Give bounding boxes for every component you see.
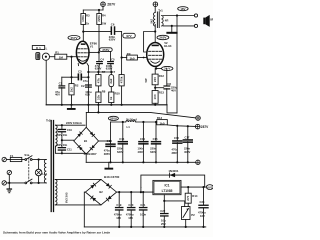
svg-text:16V: 16V	[116, 216, 121, 220]
resistor R3	[81, 13, 90, 25]
resistor R13k	[152, 90, 164, 103]
node R2 top	[70, 76, 72, 78]
resistor R1	[55, 51, 67, 60]
wire top rail y10	[83, 9, 103, 11]
capacitor C11	[56, 143, 72, 151]
EF86 bottom pin ticks	[78, 63, 88, 65]
EL34 grid dashes	[149, 51, 162, 59]
switch S1a	[24, 153, 32, 160]
Tr2 heater winding	[55, 179, 57, 204]
svg-text:10u: 10u	[161, 219, 166, 223]
EF86 labels	[90, 42, 98, 49]
svg-text:1k0: 1k0	[129, 57, 134, 61]
jack ground drop	[45, 60, 47, 105]
svg-text:630V: 630V	[117, 150, 123, 154]
svg-text:Tr2: Tr2	[46, 118, 51, 122]
heater bottom tap	[55, 204, 101, 206]
node C13	[122, 121, 124, 123]
EF86 anode plate	[81, 43, 86, 45]
wire anode to tube	[82, 32, 84, 42]
resistor R7	[96, 70, 106, 86]
Tr2 primary winding	[44, 160, 46, 183]
EF86 cathode	[79, 59, 87, 61]
bridge rectifier B1	[74, 127, 99, 154]
svg-text:LT1085: LT1085	[162, 189, 173, 193]
IC input jog	[152, 191, 154, 193]
svg-text:V1: V1	[90, 45, 94, 49]
capacitor C20	[126, 192, 136, 227]
rail dots	[109, 161, 188, 163]
node C14	[142, 121, 144, 123]
B+ rail	[111, 122, 196, 126]
EF86 cathode run y77.2	[62, 76, 78, 78]
svg-text:47k: 47k	[96, 78, 100, 83]
wire R11 col	[121, 58, 123, 105]
svg-text:C22: C22	[160, 209, 165, 213]
resistor R5 capsule	[100, 48, 113, 52]
svg-text:630V: 630V	[95, 67, 102, 71]
mains terminal L	[2, 157, 6, 161]
capacitor C17	[183, 126, 193, 162]
capacitor C5	[106, 58, 115, 71]
coupling wire y31.6	[83, 31, 111, 33]
wire jack to R1	[50, 56, 55, 58]
svg-text:1M: 1M	[59, 56, 64, 60]
protection diode 1N4001	[141, 169, 205, 187]
node grid EF86	[70, 56, 72, 58]
svg-text:257V: 257V	[70, 36, 77, 40]
switch S1b	[25, 179, 32, 184]
svg-text:220n: 220n	[184, 147, 190, 151]
svg-text:240: 240	[153, 77, 157, 82]
svg-text:1k: 1k	[109, 96, 113, 100]
svg-text:1W: 1W	[102, 21, 107, 25]
Tr2 HV secondary	[55, 125, 57, 146]
B2 diode TR	[106, 183, 111, 188]
input jack socket K1	[42, 53, 49, 60]
capacitor C19	[114, 192, 124, 227]
capacitor C3	[78, 70, 88, 83]
svg-text:287V: 287V	[201, 125, 209, 129]
resistor R9 grid stopper	[127, 52, 138, 61]
svg-text:100n: 100n	[138, 146, 144, 150]
node PE junction	[8, 182, 10, 184]
capacitor C7 capsule	[109, 70, 116, 87]
node cathode	[155, 67, 157, 69]
ganged switch link	[28, 158, 30, 181]
svg-text:2u2: 2u2	[109, 78, 113, 83]
svg-text:47n: 47n	[83, 79, 88, 83]
svg-text:1N4001: 1N4001	[168, 169, 179, 173]
input connector K1 label box	[32, 46, 47, 51]
svg-text:270: 270	[186, 195, 190, 200]
wire R9 to EL34 g1	[137, 57, 146, 59]
svg-text:R13: R13	[157, 116, 163, 120]
svg-text:6V3: 6V3	[207, 185, 213, 189]
node B1 plus	[109, 140, 111, 142]
svg-text:470u: 470u	[104, 149, 110, 153]
capacitor C12	[104, 139, 116, 163]
svg-text:C2: C2	[81, 84, 85, 88]
terminal 0V PSU	[196, 160, 200, 164]
svg-text:C1: C1	[59, 81, 63, 85]
svg-text:L1: L1	[127, 125, 131, 129]
cathode column x88.4	[87, 66, 89, 105]
Tr2 core	[51, 121, 53, 212]
terminal +287V (Tr1)	[153, 2, 158, 7]
node C11 bottom	[61, 152, 63, 154]
node feedback	[176, 14, 178, 16]
node C10 C11 mid	[61, 139, 63, 141]
svg-text:40V: 40V	[55, 93, 60, 97]
svg-text:18V: 18V	[180, 7, 185, 11]
terminal +287V (top)	[101, 2, 106, 7]
mains terminal N	[2, 181, 6, 185]
node anode	[82, 31, 84, 33]
svg-text:5H 50mA: 5H 50mA	[126, 118, 137, 122]
svg-text:97V: 97V	[126, 34, 131, 38]
C11 bottom	[61, 151, 63, 154]
svg-text:25V: 25V	[161, 222, 166, 226]
adj wire to P2	[164, 201, 184, 207]
wire grid node down	[71, 57, 73, 77]
B2 diode BR	[106, 196, 111, 201]
loudspeaker LS1	[203, 15, 213, 27]
node adj	[163, 200, 165, 202]
svg-text:B1: B1	[84, 139, 88, 143]
0V leg to bridge	[85, 112, 87, 127]
svg-text:C3: C3	[78, 70, 82, 74]
svg-text:C19: C19	[116, 203, 121, 207]
oval label 0V (EL34 grid)	[123, 33, 135, 38]
svg-text:385V: 385V	[104, 152, 110, 156]
svg-text:4700u: 4700u	[114, 213, 122, 217]
ground bus	[46, 104, 167, 106]
input plug symbol	[36, 53, 40, 60]
capacitor C22	[160, 201, 169, 227]
riser C2 col	[87, 105, 89, 113]
HV top wire	[55, 124, 85, 126]
Tr1 primary winding	[154, 13, 156, 27]
IC1 LT1085	[153, 180, 181, 194]
speaker terminal bottom	[194, 24, 197, 27]
EL34 labels	[164, 41, 172, 48]
heater ground rail	[84, 226, 206, 228]
Tr1 secondary winding	[161, 16, 163, 27]
svg-text:C16: C16	[174, 136, 179, 140]
wire R4 bottom to screen node	[98, 25, 100, 62]
svg-text:B2: B2	[99, 190, 103, 194]
PSU 0V rail	[86, 112, 195, 118]
svg-text:630V: 630V	[150, 150, 156, 154]
wire col1 mid	[97, 72, 99, 92]
IC in left wire	[140, 187, 142, 192]
svg-text:S1a: S1a	[24, 153, 29, 157]
svg-text:F1: F1	[10, 154, 14, 158]
fuse F1	[10, 154, 22, 162]
chassis ground secondary	[166, 26, 177, 34]
wire R3 top	[82, 10, 84, 14]
wire L to fuse	[6, 159, 10, 161]
svg-text:220n: 220n	[150, 146, 156, 150]
svg-text:16V: 16V	[128, 216, 133, 220]
svg-text:400V: 400V	[138, 150, 144, 154]
EL34 g1 pin dot	[143, 57, 145, 59]
svg-text:C5: C5	[111, 58, 115, 62]
capacitor C1	[55, 77, 65, 105]
B2 minus leg	[84, 192, 85, 227]
wire S1b to Tr2	[32, 182, 46, 184]
svg-text:1k: 1k	[86, 21, 90, 25]
EL34 tube V2	[147, 43, 164, 67]
svg-text:100n: 100n	[140, 213, 146, 217]
node screen	[98, 51, 100, 53]
resistor R16	[157, 116, 168, 125]
preset P2	[182, 207, 196, 220]
B1 minus leg	[85, 154, 87, 162]
svg-text:100: 100	[153, 94, 157, 99]
wire N to S1b	[6, 182, 25, 184]
svg-text:5k2: 5k2	[150, 19, 154, 24]
bus junction dots	[61, 104, 157, 106]
svg-text:63V: 63V	[85, 93, 90, 97]
resistor R14	[185, 193, 198, 203]
svg-text:8R: 8R	[210, 18, 213, 22]
node C17 top	[187, 125, 189, 127]
node secondary gnd	[171, 25, 173, 27]
IC output wire	[181, 186, 206, 188]
mains terminal PE	[7, 170, 11, 183]
earth symbol	[7, 183, 13, 193]
svg-text:10k: 10k	[96, 95, 100, 100]
IC adj pin	[163, 195, 165, 201]
svg-text:C6: C6	[111, 23, 115, 27]
svg-text:C14: C14	[140, 137, 145, 141]
svg-text:IC1: IC1	[165, 183, 170, 187]
wire fuse to S1a	[22, 159, 25, 161]
svg-text:R12: R12	[159, 74, 165, 78]
node anode EL34	[154, 30, 156, 32]
oval label 265V	[157, 35, 169, 39]
resistor R10	[109, 91, 120, 102]
wire node to R9	[122, 57, 127, 59]
svg-text:4700u: 4700u	[198, 211, 206, 215]
B2 plus rail	[117, 191, 153, 193]
svg-text:255V: 255V	[102, 48, 109, 52]
terminal +287V PSU	[195, 124, 209, 129]
svg-text:330V: 330V	[110, 117, 117, 121]
EL34 cathode pin	[155, 66, 157, 68]
svg-text:265V: 265V	[159, 36, 166, 40]
svg-text:470k: 470k	[120, 76, 124, 83]
wire R3 bottom to anode node	[82, 25, 84, 32]
resistor R4	[97, 13, 107, 25]
svg-text:R1: R1	[55, 51, 59, 55]
capacitor C14	[138, 122, 149, 162]
svg-text:C15: C15	[153, 137, 158, 141]
HV bottom wire	[55, 146, 86, 153]
svg-text:385V: 385V	[172, 151, 178, 155]
B1 diode BR	[90, 145, 95, 150]
choke L1	[126, 118, 137, 129]
heater rail dots	[118, 226, 204, 228]
wire C5 top	[110, 52, 112, 61]
EL34 anode plate	[152, 45, 159, 47]
capacitor C21	[139, 192, 148, 227]
node C24 top	[202, 186, 204, 188]
oval label 24V	[162, 66, 173, 70]
node C16 top	[176, 125, 178, 127]
svg-text:R7: R7	[102, 70, 106, 74]
svg-text:C21: C21	[140, 203, 145, 207]
svg-text:4700u: 4700u	[126, 213, 134, 217]
EL34 cathode	[151, 61, 160, 63]
svg-text:4R: 4R	[165, 18, 169, 22]
svg-text:R10: R10	[115, 91, 121, 95]
Tr1 core	[157, 12, 159, 28]
node C10 top	[61, 124, 63, 126]
bus end jog	[167, 105, 177, 113]
wire R4 top	[98, 10, 100, 14]
capacitor C16	[172, 126, 183, 163]
svg-text:R14: R14	[192, 194, 198, 198]
secondary bottom wire	[163, 25, 194, 27]
nodes heater caps	[118, 191, 144, 193]
riser col1	[97, 105, 99, 113]
capacitor C6	[109, 23, 116, 42]
g2 tap wire	[144, 32, 156, 53]
node lamp bottom	[38, 182, 40, 184]
oval label 257V	[68, 36, 80, 40]
resistor R11 grid leak	[119, 75, 124, 86]
svg-text:C4: C4	[100, 58, 104, 62]
ground symbol PSU	[105, 162, 114, 169]
svg-text:R3: R3	[86, 13, 90, 17]
capacitor C2	[81, 84, 92, 97]
capacitor C8	[163, 69, 177, 105]
lamp La1	[35, 160, 47, 183]
svg-text:4x1N4007: 4x1N4007	[84, 152, 97, 156]
node C15	[155, 121, 157, 123]
svg-text:2k2: 2k2	[69, 87, 73, 92]
terminal 0V upper	[196, 116, 201, 121]
wire terminal down	[102, 7, 104, 11]
node R4 top	[98, 9, 100, 11]
speaker terminal top	[194, 14, 197, 17]
svg-text:B40-C3700: B40-C3700	[104, 175, 120, 179]
B1 diode BL	[78, 145, 83, 150]
EF86 grid dashes	[78, 49, 88, 57]
oval label 6V3	[206, 185, 213, 190]
screen wire y52.4	[89, 51, 99, 53]
svg-text:1k0: 1k0	[159, 121, 164, 125]
svg-text:16V: 16V	[200, 214, 205, 218]
wire col2	[110, 72, 112, 92]
feedback line down	[176, 16, 178, 113]
svg-text:K 1: K 1	[36, 46, 41, 50]
svg-text:C20: C20	[128, 203, 133, 207]
wire R1 to grid	[67, 56, 77, 58]
node k column	[87, 76, 89, 78]
node R14 top	[187, 186, 189, 188]
svg-text:P2: P2	[191, 213, 195, 217]
node x88.4 y72	[87, 71, 89, 73]
svg-text:630V: 630V	[109, 38, 116, 42]
svg-text:EL34: EL34	[164, 44, 172, 48]
resistor R12	[144, 74, 164, 85]
svg-text:R13: R13	[159, 90, 165, 94]
svg-text:C13: C13	[119, 137, 124, 141]
svg-text:R2: R2	[75, 84, 79, 88]
B1 diode TR	[90, 132, 95, 137]
B+ riser	[110, 122, 112, 144]
svg-text:C17: C17	[185, 135, 190, 139]
capacitor C24	[198, 187, 209, 227]
Tr1 primary bottom to anode	[154, 24, 156, 42]
wire mid to bridge left	[62, 139, 74, 141]
capacitor C13	[117, 122, 128, 162]
heater top tap	[55, 178, 101, 180]
wire cathode down	[154, 69, 156, 75]
svg-text:40V: 40V	[171, 88, 176, 92]
wire C5 down	[110, 64, 112, 72]
resistor R8	[96, 90, 106, 103]
svg-text:R8: R8	[102, 90, 106, 94]
wire y72 screen caps bus	[88, 71, 111, 73]
resistor R2	[69, 84, 79, 95]
node col1	[97, 71, 99, 73]
wire terminal to Tr1	[154, 7, 156, 13]
bridge rectifier B2	[85, 179, 116, 205]
svg-text:230V 100mA: 230V 100mA	[66, 121, 82, 125]
wire S1a to Tr2	[32, 159, 46, 161]
svg-text:R4: R4	[102, 13, 106, 17]
secondary top wire	[163, 15, 194, 17]
wire C4 down	[98, 64, 101, 72]
wire C6 to corner	[115, 31, 121, 33]
wire C3 right	[82, 76, 88, 78]
svg-text:6V3 3A5: 6V3 3A5	[64, 192, 68, 203]
svg-text:L: L	[46, 46, 48, 50]
svg-text:Schematic from Build your own: Schematic from Build your own Audio Valv…	[3, 230, 111, 234]
B2 diode BL	[91, 196, 96, 201]
capacitor C10	[56, 125, 72, 137]
node lamp top	[38, 158, 40, 160]
jog to C8	[155, 87, 164, 89]
svg-text:C10: C10	[67, 128, 72, 132]
svg-text:470u: 470u	[172, 148, 178, 152]
node grid EL34	[121, 56, 123, 58]
svg-text:C23: C23	[200, 200, 205, 204]
node 0V rail	[97, 111, 99, 113]
svg-text:400V: 400V	[184, 150, 190, 154]
capacitor C15	[150, 122, 161, 162]
B2 diode TL	[90, 183, 95, 188]
svg-text:287V: 287V	[107, 3, 116, 7]
ground symbol on bus	[67, 105, 76, 110]
svg-text:R9: R9	[127, 52, 131, 56]
svg-text:220k: 220k	[97, 15, 101, 22]
node R12 R13 junction	[154, 87, 156, 89]
svg-text:100k: 100k	[81, 15, 85, 22]
svg-text:C12: C12	[107, 139, 112, 143]
wire cathode right	[156, 68, 167, 70]
capacitor C4	[95, 58, 105, 71]
B1 diode TL	[77, 132, 82, 137]
PSU ground rail	[86, 161, 196, 163]
svg-text:5W: 5W	[144, 78, 148, 82]
svg-text:220n: 220n	[117, 146, 123, 150]
